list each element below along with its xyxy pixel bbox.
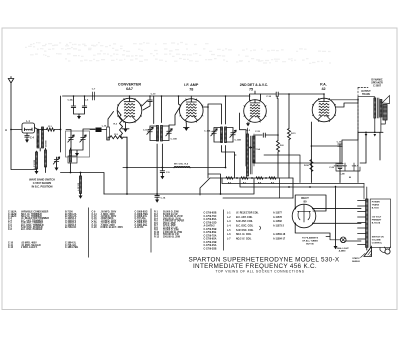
svg-text:C-16: C-16 xyxy=(266,96,272,98)
output transformer primary xyxy=(374,98,376,118)
plate wire 78 xyxy=(203,104,222,124)
speaker bottom bus xyxy=(358,131,383,133)
svg-text:C-15: C-15 xyxy=(255,131,261,133)
svg-text:A-11573-2: A-11573-2 xyxy=(273,225,285,228)
wire L1 to oscillator coils xyxy=(35,128,47,130)
field choke coil xyxy=(247,134,249,176)
ground under L-3 xyxy=(35,171,39,174)
diagonal feeder xyxy=(200,178,210,195)
field connection stubs xyxy=(336,163,366,171)
svg-text:TO FILAMENTS: TO FILAMENTS xyxy=(302,237,319,240)
speaker plug arrows xyxy=(365,134,368,137)
svg-text:STATIC: STATIC xyxy=(352,257,360,260)
svg-text:A-11584-18: A-11584-18 xyxy=(273,233,286,236)
osc grid resistor R-2 xyxy=(120,115,123,135)
svg-text:250,000 Ω .25W: 250,000 Ω .25W xyxy=(163,236,181,238)
field coil drops xyxy=(366,132,380,163)
coil L-18 xyxy=(45,150,47,167)
scan bleed-through ghosting xyxy=(30,43,209,46)
node A xyxy=(10,129,12,131)
svg-text:C-14: C-14 xyxy=(161,196,167,199)
capacitor C-7 in bus xyxy=(93,92,95,100)
grid cap drop 78 xyxy=(179,96,192,106)
coil L2 xyxy=(37,130,39,148)
svg-text:R-50: R-50 xyxy=(304,165,310,167)
speaker cone xyxy=(382,96,390,104)
svg-text:C-12: C-12 xyxy=(8,247,14,249)
svg-text:78: 78 xyxy=(189,87,193,91)
resistor R-5 on bus xyxy=(226,177,233,179)
svg-text:2 MFD. ELECT.: 2 MFD. ELECT. xyxy=(21,247,38,249)
tube V1 converter 6A7 xyxy=(117,98,142,123)
trimmer C-11B xyxy=(163,126,170,141)
svg-text:C-1759-8SA: C-1759-8SA xyxy=(204,218,217,221)
svg-text:C-13B: C-13B xyxy=(235,140,242,142)
svg-text:C-1759-2SA: C-1759-2SA xyxy=(204,244,217,247)
feed elbow xyxy=(208,174,221,194)
T1 secondary bottom drops xyxy=(157,144,162,194)
capacitor C-10 xyxy=(149,96,151,100)
svg-text:A-11582: A-11582 xyxy=(273,220,283,223)
cathode ground 78 xyxy=(184,123,190,128)
svg-text:INT. OSC. R-4: INT. OSC. R-4 xyxy=(174,162,189,165)
grid cap wire converter xyxy=(129,96,131,98)
resistor R-10 vertical xyxy=(277,141,280,153)
svg-text:110 VOLT: 110 VOLT xyxy=(372,217,382,219)
svg-text:C-1884-7BG: C-1884-7BG xyxy=(65,246,78,249)
svg-text:A-11473: A-11473 xyxy=(135,226,145,229)
PA cathode chain xyxy=(310,122,312,183)
svg-text:OUTPUT: OUTPUT xyxy=(361,91,371,93)
svg-text:C-10: C-10 xyxy=(151,94,157,96)
wire converter cathode chain xyxy=(126,137,128,166)
svg-text:C-18: C-18 xyxy=(337,141,343,143)
svg-text:A-11584-17: A-11584-17 xyxy=(273,237,286,240)
svg-text:I.F. REJECTOR COIL: I.F. REJECTOR COIL xyxy=(236,213,259,215)
svg-text:A-11577: A-11577 xyxy=(273,212,283,215)
svg-text:42: 42 xyxy=(321,87,325,91)
long feed wires mid xyxy=(264,155,300,183)
transformer top drop xyxy=(363,184,365,200)
svg-text:SWITCH ON: SWITCH ON xyxy=(372,237,384,239)
power bus lines xyxy=(222,178,364,187)
coil L-3 lower xyxy=(36,152,38,169)
power transformer winding xyxy=(366,199,368,248)
screen feed drop xyxy=(207,107,209,178)
svg-text:GRN-Y: GRN-Y xyxy=(352,166,359,168)
svg-text:C-1759-7SC: C-1759-7SC xyxy=(204,216,217,218)
tube V5 rectifier 80 xyxy=(292,204,316,228)
resistor R-3 xyxy=(110,136,123,139)
T1 plate feed xyxy=(142,96,162,124)
svg-text:VOLUME: VOLUME xyxy=(372,240,382,242)
wire left drop xyxy=(60,96,62,152)
variable condenser gang xyxy=(66,131,90,157)
top wires 2nd det xyxy=(250,91,261,100)
rect filament wires xyxy=(295,223,330,236)
top bus wire xyxy=(63,95,251,97)
svg-text:2ND DET & A.V.C.: 2ND DET & A.V.C. xyxy=(240,83,268,87)
trimmer C-13B xyxy=(227,128,234,143)
svg-text:C-1759-5SB: C-1759-5SB xyxy=(204,229,217,231)
antenna xyxy=(8,77,36,172)
trimmer C-1B xyxy=(81,135,85,142)
capacitor C-6 xyxy=(84,96,86,106)
svg-text:C-5A: C-5A xyxy=(67,98,73,101)
svg-text:L-3 50000: L-3 50000 xyxy=(34,159,36,169)
resistor R-6 on bus xyxy=(269,177,276,179)
svg-text:R-12: R-12 xyxy=(154,236,160,238)
volume control R-5 xyxy=(253,136,255,163)
svg-text:8 MFD. ELECT. 450V: 8 MFD. ELECT. 450V xyxy=(101,226,124,229)
coil L-13 xyxy=(80,176,82,194)
antenna coil L1 shield box xyxy=(22,123,35,133)
svg-text:80: 80 xyxy=(303,199,307,203)
svg-text:A-11578: A-11578 xyxy=(273,216,283,219)
tube V2 I.F. amp 78 xyxy=(180,99,204,123)
rect plate wires to transformer xyxy=(313,209,361,224)
svg-text:1 DIAL LIGHT: 1 DIAL LIGHT xyxy=(335,247,349,250)
AC plug xyxy=(385,249,390,254)
coupling cap C-15 xyxy=(255,134,262,136)
svg-text:C-11A: C-11A xyxy=(143,129,150,132)
svg-text:S.W. OSC. COIL: S.W. OSC. COIL xyxy=(236,230,254,232)
IF coil secondary xyxy=(161,126,163,142)
trimmer C-1A xyxy=(69,135,73,142)
C-16 drop xyxy=(276,96,278,98)
table divider 2 xyxy=(150,209,152,253)
IF coil primary xyxy=(221,127,223,143)
resistor R-1 xyxy=(47,128,55,131)
ground under gang xyxy=(75,153,79,156)
mid bus with resistors xyxy=(210,177,293,179)
svg-text:B-7159: B-7159 xyxy=(372,208,380,210)
static shield leader xyxy=(361,254,366,258)
det ground xyxy=(247,122,249,123)
IF coil secondary xyxy=(225,127,227,143)
grid wire 78 xyxy=(169,106,181,130)
svg-text:A: A xyxy=(5,128,7,132)
voice coil xyxy=(383,105,387,121)
capacitor C-16 xyxy=(261,93,277,95)
svg-text:C-2087: C-2087 xyxy=(373,85,382,88)
tube V3 2nd det 75 xyxy=(244,100,267,123)
svg-text:CONTROL: CONTROL xyxy=(372,243,383,245)
svg-text:C-1759-7SA: C-1759-7SA xyxy=(204,234,217,237)
coil list bracket xyxy=(260,226,261,230)
T2 top feed xyxy=(225,96,227,124)
svg-text:C-1759-3SB: C-1759-3SB xyxy=(204,248,217,250)
svg-text:75: 75 xyxy=(249,87,253,91)
left return wire xyxy=(61,173,105,195)
svg-text:OF ALL TUBES: OF ALL TUBES xyxy=(302,240,318,243)
transformer top feed xyxy=(366,187,368,199)
T2 bottom drops xyxy=(222,146,237,179)
rect filament structure xyxy=(298,205,311,223)
wire drops right of bus xyxy=(279,178,281,198)
svg-text:SHIELD: SHIELD xyxy=(352,261,360,263)
svg-text:EL.50000: EL.50000 xyxy=(37,137,39,147)
cathode branch to C-18 xyxy=(311,144,340,146)
svg-text:BLK: BLK xyxy=(343,166,348,168)
PA plate wire to output transformer xyxy=(336,103,358,107)
lower bus long xyxy=(104,178,254,194)
bypass cap C-9 xyxy=(161,168,163,171)
svg-text:B-7169-6F: B-7169-6F xyxy=(65,227,77,229)
svg-text:C-1759-9SA: C-1759-9SA xyxy=(204,238,217,241)
tube V4 P.A. 42 xyxy=(312,98,336,122)
svg-text:A-4880: A-4880 xyxy=(339,250,347,253)
bypass cap C-14 xyxy=(156,194,158,196)
rect plate routing xyxy=(295,195,326,211)
svg-text:PRIMARY: PRIMARY xyxy=(372,219,382,222)
resistor R-11 vertical xyxy=(288,129,291,140)
svg-text:L-16: L-16 xyxy=(102,126,107,128)
svg-text:TRANS: TRANS xyxy=(362,93,370,96)
electrolytic C-20 xyxy=(337,164,343,169)
svg-text:B-7157A: B-7157A xyxy=(372,222,381,225)
svg-text:C-20: C-20 xyxy=(92,227,98,229)
resistor R-8 on bus xyxy=(256,177,263,179)
trimmer C-4 lower xyxy=(54,157,58,164)
center tap line xyxy=(335,187,337,247)
svg-text:C-2M: C-2M xyxy=(340,174,345,176)
svg-text:C-11B: C-11B xyxy=(171,139,178,141)
output transformer core xyxy=(378,98,379,118)
svg-text:B.C. OSC. PADDER: B.C. OSC. PADDER xyxy=(21,228,43,231)
svg-text:C-4: C-4 xyxy=(30,137,35,140)
svg-text:IN B.C. POSITION: IN B.C. POSITION xyxy=(32,186,53,189)
converter return drop xyxy=(126,137,128,194)
svg-text:C-13A: C-13A xyxy=(204,130,211,133)
svg-text:7-5A: 7-5A xyxy=(256,148,261,151)
svg-text:C-1759-6SB: C-1759-6SB xyxy=(204,213,217,215)
det grid return xyxy=(240,113,247,166)
svg-text:TOP VIEWS OF ALL SOCKET CONNEC: TOP VIEWS OF ALL SOCKET CONNECTIONS xyxy=(215,270,304,274)
resistor R-4 in AVC line xyxy=(174,166,190,167)
svg-text:S.W. ANT. COIL: S.W. ANT. COIL xyxy=(236,220,253,223)
svg-text:6A7: 6A7 xyxy=(126,87,133,91)
choke L-16 xyxy=(96,128,102,133)
IF coil primary xyxy=(157,126,159,142)
AVC line xyxy=(123,167,226,169)
PA top cap wire xyxy=(323,94,325,98)
table divider 3 xyxy=(223,210,225,251)
svg-text:500000: 500000 xyxy=(46,139,48,147)
capacitor C-5A xyxy=(73,96,75,106)
capacitor C-4 below L1 xyxy=(26,133,28,136)
svg-text:A-11584: A-11584 xyxy=(220,134,223,142)
coil L3 xyxy=(42,127,44,148)
screen feed right xyxy=(357,100,359,183)
trimmer C-13A xyxy=(214,128,221,143)
svg-text:A-10478-2: A-10478-2 xyxy=(204,225,216,228)
svg-text:B.C. ANT. COIL: B.C. ANT. COIL xyxy=(236,216,253,219)
capacitor C-18 xyxy=(338,144,342,146)
switch contact box xyxy=(68,156,77,163)
svg-text:BUT 80: BUT 80 xyxy=(306,244,314,246)
grid bias cartridge xyxy=(107,127,110,140)
svg-text:B.C. OSC. COIL: B.C. OSC. COIL xyxy=(236,226,254,228)
resistor R-7 on bus xyxy=(241,177,248,179)
svg-text:TRANS: TRANS xyxy=(372,204,380,207)
trimmer C-11A xyxy=(150,126,157,141)
svg-text:GRN: GRN xyxy=(334,166,339,168)
cathode ground converter xyxy=(122,123,129,129)
coil L-5 xyxy=(70,150,72,162)
svg-text:POWER: POWER xyxy=(372,202,380,204)
svg-text:NO.2 I.F. COIL: NO.2 I.F. COIL xyxy=(236,238,252,240)
PA screen wire xyxy=(330,99,358,101)
pilot lamp xyxy=(340,237,346,243)
lower second bus xyxy=(223,197,293,199)
wire antenna to L1 xyxy=(11,129,22,131)
svg-text:C-1759-8SE: C-1759-8SE xyxy=(204,232,217,234)
svg-text:L-13 500: L-13 500 xyxy=(78,182,80,191)
speaker wires xyxy=(358,97,375,103)
static shield xyxy=(364,247,372,257)
transformer label box xyxy=(370,199,390,248)
svg-text:R-11: R-11 xyxy=(291,133,296,135)
svg-text:NO.1 I.F. COIL: NO.1 I.F. COIL xyxy=(236,234,252,236)
svg-text:C-1759-1SD: C-1759-1SD xyxy=(204,222,217,224)
table divider 1 xyxy=(88,208,90,258)
output transformer secondary xyxy=(380,100,382,118)
ground below C-5A/C-6 xyxy=(77,116,81,119)
transformer taps xyxy=(358,201,366,245)
speaker dashed boundary xyxy=(357,88,359,138)
svg-text:C-1759-1SB: C-1759-1SB xyxy=(204,242,217,244)
pilot lamp wire xyxy=(346,240,361,243)
svg-text:A-11584: A-11584 xyxy=(156,133,159,141)
